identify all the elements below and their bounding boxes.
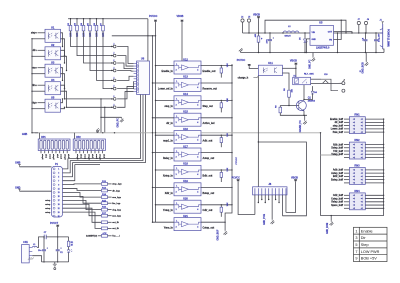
feedback wire [265,20,346,33]
ground flag buffers [223,230,227,235]
buffer U20 [174,200,201,213]
U5 ground pin wire [307,39,311,53]
svg-text:GNB: GNB [22,133,28,136]
output wire Adir_out [201,134,232,136]
svg-text:estop: estop [45,203,51,206]
RP1 pin 7 [62,151,64,154]
svg-text:LM2574/5.0: LM2574/5.0 [316,46,330,49]
test point J7 [357,21,360,24]
capacitor C2 [56,249,60,251]
RN1 left pin 1 [344,118,349,120]
resistor R14 [102,196,108,199]
output wire Bdir_out [201,169,232,171]
svg-text:VIN: VIN [312,32,316,34]
regulator input bus [243,32,311,34]
networks right bus [383,119,385,216]
svg-text:220u: 220u [267,38,269,43]
svg-text:1: 1 [176,133,177,135]
transistor Q1 2N3904 [296,101,306,111]
RN2 right pin 4 [365,153,383,155]
RP1 pin 6 [59,151,61,154]
svg-text:4: 4 [197,104,198,107]
RN1 right pin 5 [365,131,383,133]
input wire Xstep_in [156,169,175,171]
wire CN1 pin3 [32,256,41,262]
svg-text:dir_byp: dir_byp [112,190,120,192]
svg-text:ena_byp: ena_byp [112,197,121,199]
resistor R10 [258,33,260,36]
packs top rail [32,132,38,134]
relay ground flag [304,115,306,119]
svg-text:RN1: RN1 [354,113,360,117]
RP2 pin 7 [98,151,100,154]
svg-text:VBOB: VBOB [291,176,298,179]
RN1 left pin 2 [344,121,349,123]
svg-text:ena2: ena2 [60,154,62,160]
svg-text:Active_led: Active_led [203,122,215,125]
RP1 pin 4 [51,151,53,154]
svg-text:lim+: lim+ [32,85,37,87]
RN2 left pin 1 [344,144,349,146]
pullup resistor row 1 [221,65,222,66]
svg-text:VBOB: VBOB [253,14,260,17]
svg-text:Cstep_out: Cstep_out [203,227,215,230]
svg-text:Ystep_in: Ystep_in [163,209,174,212]
svg-text:Lower_buff: Lower_buff [331,129,343,131]
svg-text:Reserve_out: Reserve_out [203,87,218,90]
RN2 left pin 5 [344,157,349,159]
svg-text:U19: U19 [183,179,188,183]
svg-text:J: J [113,60,114,62]
svg-text:4.7K: 4.7K [102,232,107,235]
buffer U21 [174,218,201,231]
svg-text:J: J [113,53,114,55]
svg-text:3: 3 [176,209,177,211]
RN2 left pin 3 [344,150,349,152]
resistor R16 [102,208,108,211]
cathode wire to GND bus U1 [32,38,45,40]
svg-text:15: 15 [58,196,60,198]
svg-text:GND_PC: GND_PC [117,118,119,128]
J8 pin 9 wire [282,195,284,216]
J8 pin 5 wire [268,195,270,200]
RN4 right pin 5 [365,207,383,209]
wires U6 to P1 connector [68,95,141,159]
feedback branch to FB pin [334,20,342,39]
wire L1 to top rail [37,237,44,248]
svg-text:7: 7 [58,180,59,182]
resistor R2 [70,19,72,26]
svg-text:J: J [113,96,114,98]
RN1 right pin 4 [365,128,383,130]
networks ground wire [321,215,384,217]
svg-text:step3: step3 [99,154,102,160]
svg-text:J: J [113,68,114,70]
buffer left bus A [152,36,154,223]
input wire Lower_ref_in [153,82,175,84]
input wire msp1_in [156,134,175,136]
pullup resistor row 9 [221,204,222,205]
resistor R13 [102,189,108,192]
svg-text:Step: Step [361,243,369,247]
RN3 right pin 2 [365,172,383,174]
svg-text:VBOB: VBOB [290,60,297,63]
opto output wires [61,33,63,47]
resistor R5 [89,19,91,26]
RP2 pin 8 [102,151,104,154]
top supply bus [68,18,148,20]
opto emitter wire to R8 [282,73,289,90]
svg-text:ena1: ena1 [48,154,50,160]
svg-text:step3: step3 [63,154,66,160]
resistor network RN3 [349,168,365,185]
resistor R12 [102,183,108,186]
svg-text:4: 4 [197,225,198,228]
svg-text:step1: step1 [76,154,79,160]
svg-text:PCVCC: PCVCC [232,176,241,179]
svg-text:Yena_in: Yena_in [164,227,174,230]
flyback diode D4 [312,86,314,91]
gray stub to networks [321,154,341,156]
RN1 right pin 2 [365,121,383,123]
svg-text:Bdir_out: Bdir_out [203,174,213,177]
RN3 left pin 2 [344,172,349,174]
resistor pack RP1 [39,133,41,139]
svg-text:1: 1 [176,81,177,83]
wires resistors to junction rows [71,31,112,47]
J8 pin 2 wire [257,195,259,203]
RN1 left pin 5 [344,131,349,133]
buffer U18 [174,165,201,178]
input wire IN1 [38,32,46,34]
RN3 right pin 4 [365,179,383,181]
input wire IN3 [38,67,46,69]
buffer U17 [174,148,201,161]
resistor network RN2 [349,142,365,159]
svg-text:Xstep_buff: Xstep_buff [331,147,343,150]
svg-text:Enable_out: Enable_out [203,70,216,73]
svg-text:RP1: RP1 [41,137,46,139]
RN3 left pin 5 [344,182,349,184]
svg-text:1: 1 [176,64,177,66]
svg-text:Astep_buff: Astep_buff [331,172,343,175]
svg-text:5: 5 [355,243,357,247]
svg-text:U13: U13 [183,75,188,79]
svg-text:Enable_in: Enable_in [162,70,174,73]
svg-text:Enable: Enable [361,229,373,233]
svg-text:J: J [113,77,114,79]
emitter wire to ground [303,111,305,115]
resistor R15 [102,202,108,205]
RN4 left pin 2 [344,198,349,200]
capacitor C7 series [43,235,45,240]
svg-text:4: 4 [197,191,198,194]
RN3 left pin 1 [344,169,349,171]
svg-text:1: 1 [176,151,177,153]
RP2 pin 2 [79,151,81,154]
earth symbol on ground net [96,128,100,133]
resistor network RN1 [349,117,365,134]
wires P1 to resistors [63,183,102,186]
svg-text:ena2: ena2 [95,154,97,160]
RN2 right pin 5 [365,157,383,159]
svg-text:1: 1 [58,169,59,171]
optocoupler U5 [45,99,61,112]
input wire Relay_in [153,152,175,154]
svg-text:lim_byp: lim_byp [112,203,121,205]
svg-text:3: 3 [176,139,177,141]
input wire Xdir_in [153,186,175,188]
svg-text:U6: U6 [141,57,145,61]
RN1 left pin 4 [344,128,349,130]
RN2 right pin 3 [365,150,383,152]
junction row 7 [65,98,112,100]
optocoupler U2 [45,47,61,60]
capacitor C8 [365,33,367,39]
svg-text:J: J [113,104,114,106]
bottom rail [42,261,69,263]
svg-text:4: 4 [197,121,198,124]
cathode wire to GND bus U3 [32,73,45,75]
svg-text:CHGND_PC: CHGND_PC [300,120,302,133]
svg-text:U4: U4 [51,78,55,82]
svg-text:U18: U18 [183,162,188,166]
svg-text:10K: 10K [227,167,229,171]
output wire Reserve_out [201,82,232,84]
svg-text:U14: U14 [183,92,188,96]
svg-text:GND_BOB: GND_BOB [327,222,329,234]
svg-text:PCVCT: PCVCT [50,222,59,225]
output wire Bstep_out [201,186,232,188]
svg-text:1: 1 [355,229,357,233]
svg-text:ena+: ena+ [32,68,38,70]
svg-text:Adir_buff: Adir_buff [333,169,343,172]
RP2 pin 5 [90,151,92,154]
J8 pin 10 wire [285,195,287,213]
svg-text:RN4: RN4 [354,189,360,193]
input wire Yena_in [153,221,175,223]
RP1 pin 1 [40,151,42,154]
RN3 left pin 4 [344,179,349,181]
RN2 right pin 2 [365,147,383,149]
output wire Cstep_out [201,221,225,223]
svg-text:estop: estop [45,199,51,202]
svg-text:GND_PCB: GND_PCB [264,214,266,225]
RN4 left pin 4 [344,204,349,206]
test point J5 [247,19,250,22]
svg-text:10K: 10K [291,88,293,92]
ground flag GND_PC regulator [312,53,314,57]
RN4 left pin 1 [344,194,349,196]
regulator output wires [334,32,353,33]
svg-text:470u 16V: 470u 16V [378,33,381,42]
RP1 pin 5 [55,151,57,154]
RP2 pin 1 [75,151,77,154]
optocoupler U1 [45,29,61,42]
power flag VBOB relay [294,63,297,65]
svg-text:11: 11 [58,188,60,190]
input wire IN2 [38,49,46,51]
svg-text:step1: step1 [41,154,44,160]
svg-text:charge_h: charge_h [238,77,249,80]
svg-text:Relay_buff: Relay_buff [331,202,343,204]
power flag PCVCT [56,225,59,227]
svg-text:RLY_G6K: RLY_G6K [304,73,314,75]
RP1 pin 8 [66,151,68,154]
wire horizontal node [112,35,156,37]
svg-text:3: 3 [176,226,177,228]
resistor R18 [102,221,108,224]
svg-text:U12: U12 [183,57,188,61]
connector CN1 [22,245,30,263]
svg-text:dir_buff: dir_buff [335,122,344,124]
output wire Astep_out [201,152,232,154]
svg-text:PCVCC: PCVCC [149,15,158,18]
input wire Ystep_in [156,204,175,206]
input wire IN4 [38,84,46,86]
svg-text:Xstep_in: Xstep_in [163,174,174,177]
svg-text:Ydir_buff: Ydir_buff [333,151,343,153]
left GND bus [31,39,33,133]
svg-text:step2: step2 [52,154,55,160]
svg-text:21: 21 [58,208,60,210]
svg-text:LOW PWR: LOW PWR [361,250,380,254]
svg-text:Xdir_buff: Xdir_buff [333,144,343,146]
test point J9 [364,21,367,24]
svg-text:Step_out: Step_out [203,105,213,108]
resistor R9 base-emitter [279,107,282,113]
svg-text:Dir: Dir [361,236,367,240]
svg-text:19: 19 [58,204,60,206]
svg-text:680uH: 680uH [285,36,292,38]
svg-text:10K: 10K [227,63,229,67]
RN2 left pin 2 [344,147,349,149]
svg-text:out_flt: out_flt [112,221,119,224]
ground flag J8 [270,219,274,224]
svg-text:10K: 10K [227,98,229,102]
svg-text:4: 4 [197,156,198,159]
test point circles JP1-JP8 [113,45,116,48]
wire J8 pin2 to pin9 loop [258,142,306,216]
RN3 right pin 5 [365,182,383,184]
ground flag circles area [101,116,122,118]
relay contact wires [311,78,321,80]
svg-text:U1: U1 [51,26,55,30]
svg-text:Cdir_out: Cdir_out [203,209,213,212]
chassis ground CN1 [28,258,34,260]
relay K1 [293,77,311,84]
resistor R6 [96,19,98,26]
svg-text:GND_BUF: GND_BUF [218,229,220,241]
RN2 right pin 1 [365,144,383,146]
RP2 pin 4 [86,151,88,154]
optocoupler U3 [45,64,61,77]
resistor R20 output [98,235,102,237]
ground flag GND_BOB regulator [365,53,367,62]
svg-text:ena1: ena1 [84,154,86,160]
svg-text:1: 1 [176,168,177,170]
cathode wire to GND bus U5 [32,108,45,110]
RN1 right pin 1 [365,118,383,120]
RN1 right pin 3 [365,125,383,127]
resistor R8 4.7K [288,90,291,97]
svg-text:4: 4 [197,208,198,211]
svg-text:out_flt: out_flt [112,227,119,230]
svg-text:3: 3 [176,105,177,107]
svg-text:U17: U17 [183,144,188,148]
svg-text:4: 4 [197,86,198,89]
input wire IN5 [38,102,46,104]
svg-text:U21: U21 [183,214,188,218]
resistor R19 [102,227,108,230]
ground symbol power [54,262,56,264]
base wire [280,105,299,107]
svg-text:4: 4 [197,69,198,72]
resistor R17 [102,214,108,217]
output wire Cdir_out [201,204,232,206]
svg-text:step_buff: step_buff [333,124,343,127]
svg-text:3: 3 [176,157,177,159]
RN2 left pin 4 [344,153,349,155]
RP2 pin 6 [94,151,96,154]
resistor R4 [83,19,85,26]
svg-text:3: 3 [176,70,177,72]
RN4 left pin 5 [344,207,349,209]
zener diode D5 [304,33,306,39]
output wire Active_led [201,117,232,119]
power flag VBOB J8 [294,180,297,182]
LED D1 [68,247,70,250]
resistor R3 [76,19,78,26]
RN1 left pin 3 [344,125,349,127]
svg-text:Txx___i: Txx___i [112,236,120,238]
svg-text:estop: estop [45,211,51,214]
svg-text:1: 1 [176,203,177,205]
svg-text:Cstep_buff: Cstep_buff [331,197,343,200]
svg-text:3: 3 [176,122,177,124]
vertical bus from top resistors [147,19,149,61]
buffer U13 [174,78,201,91]
svg-text:U5: U5 [51,95,55,99]
svg-text:1: 1 [176,99,177,101]
svg-text:J: J [113,44,114,46]
svg-text:OUT: OUT [328,32,333,34]
input wire step_in [156,99,175,101]
svg-text:VBOB: VBOB [177,15,184,18]
wires P1 up to U6 stairs [63,159,68,169]
svg-text:Bstep_out: Bstep_out [203,192,215,195]
svg-text:Xdir_in: Xdir_in [165,192,174,195]
svg-text:Relay_in: Relay_in [163,157,173,160]
connector J8 [253,187,287,195]
capacitor C9 470u [375,33,377,39]
pullup resistor row 3 [221,100,222,101]
opto collector wire [282,67,296,69]
svg-text:U16: U16 [183,127,188,131]
svg-text:step2: step2 [87,154,90,160]
RN4 right pin 1 [365,194,383,196]
junction row 8 [67,106,112,108]
svg-text:Bstep_buff: Bstep_buff [331,178,343,181]
svg-text:10K: 10K [227,202,229,206]
svg-text:step_byp: step_byp [112,183,122,186]
svg-text:U20: U20 [183,197,188,201]
svg-text:PCVCC: PCVCC [237,59,246,62]
connector J1 power jack [382,24,384,49]
cathode wire to GND bus U4 [32,90,45,92]
svg-text:msp1_in: msp1_in [163,140,173,143]
svg-text:estop: estop [45,207,51,210]
